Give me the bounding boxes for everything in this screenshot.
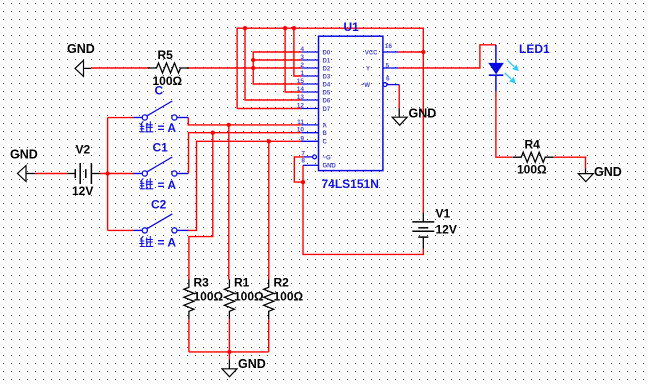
svg-text:11: 11 <box>297 119 304 126</box>
svg-text:D5: D5 <box>323 90 331 96</box>
svg-text:V2: V2 <box>76 143 91 157</box>
svg-text:D7: D7 <box>323 107 331 113</box>
svg-text:8: 8 <box>301 158 305 165</box>
svg-text:V1: V1 <box>436 207 451 221</box>
svg-text:3: 3 <box>300 54 304 61</box>
svg-text:100Ω: 100Ω <box>274 290 304 304</box>
svg-text:4: 4 <box>300 46 304 53</box>
svg-text:D2: D2 <box>323 66 331 72</box>
svg-text:B: B <box>323 131 328 137</box>
svg-text:GND: GND <box>323 164 337 170</box>
svg-text:100Ω: 100Ω <box>194 290 224 304</box>
svg-text:6: 6 <box>386 76 390 83</box>
svg-text:D0: D0 <box>323 50 331 56</box>
svg-text:GND: GND <box>594 165 622 179</box>
svg-text:GND: GND <box>238 357 266 371</box>
svg-text:C: C <box>155 84 164 98</box>
svg-text:U1: U1 <box>344 20 360 34</box>
svg-text:13: 13 <box>297 94 305 101</box>
svg-text:~W: ~W <box>361 83 371 89</box>
svg-text:Y: Y <box>366 66 370 72</box>
svg-text:= A: = A <box>158 236 177 250</box>
svg-text:12V: 12V <box>72 184 93 198</box>
svg-text:100Ω: 100Ω <box>234 290 264 304</box>
svg-text:R2: R2 <box>274 276 290 290</box>
svg-text:= A: = A <box>158 121 177 135</box>
svg-text:LED1: LED1 <box>519 42 550 56</box>
svg-text:R5: R5 <box>158 48 174 62</box>
svg-text:R4: R4 <box>525 138 541 152</box>
svg-text:1: 1 <box>300 70 304 77</box>
svg-text:9: 9 <box>300 135 304 142</box>
svg-text:12: 12 <box>297 103 305 110</box>
svg-text:VCC: VCC <box>365 50 378 56</box>
svg-text:10: 10 <box>297 127 305 134</box>
svg-text:D1: D1 <box>323 58 331 64</box>
svg-text:12V: 12V <box>436 223 457 237</box>
svg-text:D3: D3 <box>323 74 331 80</box>
svg-text:C1: C1 <box>153 141 169 155</box>
svg-text:100Ω: 100Ω <box>517 163 547 177</box>
svg-text:C: C <box>323 140 328 146</box>
svg-text:7: 7 <box>301 150 305 157</box>
svg-text:D6: D6 <box>323 98 331 104</box>
svg-text:D4: D4 <box>323 82 331 88</box>
svg-text:= A: = A <box>158 178 177 192</box>
svg-text:15: 15 <box>297 78 305 85</box>
svg-text:GND: GND <box>10 148 38 162</box>
svg-text:2: 2 <box>300 62 304 69</box>
svg-text:74LS151N: 74LS151N <box>322 177 379 191</box>
svg-text:GND: GND <box>67 42 95 56</box>
svg-text:R1: R1 <box>234 276 250 290</box>
svg-text:16: 16 <box>385 43 393 50</box>
svg-text:GND: GND <box>409 107 437 121</box>
svg-text:5: 5 <box>386 63 390 70</box>
svg-text:A: A <box>323 123 328 129</box>
svg-text:14: 14 <box>297 86 305 93</box>
svg-text:C2: C2 <box>151 198 167 212</box>
svg-text:~G: ~G <box>323 155 332 161</box>
svg-text:R3: R3 <box>194 276 210 290</box>
